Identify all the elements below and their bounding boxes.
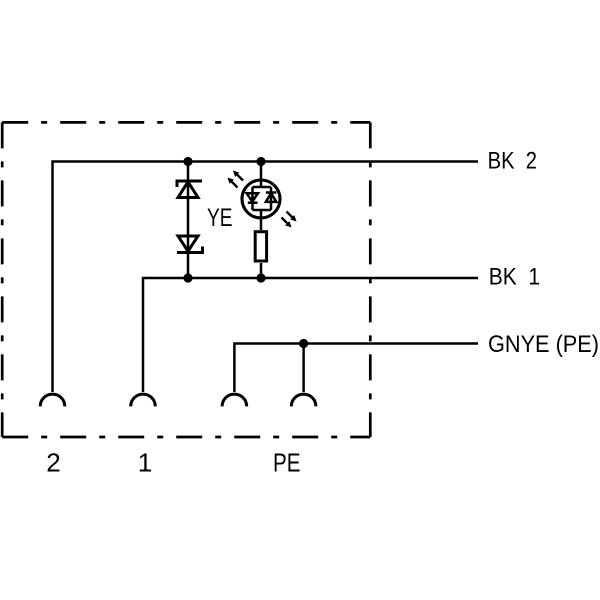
wire LED branch — [260, 162, 263, 279]
junction dot top right (BK2 / LED branch) — [256, 157, 265, 166]
LED light arrow upper-left B — [233, 171, 243, 181]
wire GNYE (PE terminals to GNYE lead) — [234, 344, 478, 393]
suppressor diode Z1 (upper zener, cathode up) — [177, 181, 202, 198]
junction dot bottom right (BK1 / LED branch) — [256, 273, 265, 282]
svg-text:GNYE (PE): GNYE (PE) — [488, 331, 599, 358]
svg-text:1: 1 — [138, 448, 152, 478]
LED light arrow lower-right B — [282, 218, 292, 228]
svg-text:BK 2: BK 2 — [488, 148, 537, 175]
LED inner antiparallel diode pair — [247, 187, 277, 210]
svg-text:YE: YE — [207, 204, 233, 232]
resistor R1 — [255, 232, 266, 261]
terminal contact 2 — [40, 394, 65, 406]
wire BK2 (coil terminal 2 to BK 2 lead) — [53, 162, 479, 393]
wire suppressor-diode branch — [187, 162, 190, 279]
wire BK1 (coil terminal 1 to BK 1 lead) — [143, 278, 478, 392]
junction dot PE line — [299, 339, 308, 348]
enclosure boundary (dash-dot phantom outline) — [2, 122, 370, 437]
wire PE right drop — [302, 344, 305, 393]
junction dot top left (BK2 / diode branch) — [183, 157, 192, 166]
LED indicator circle — [242, 180, 280, 218]
svg-text:PE: PE — [273, 448, 301, 478]
svg-text:BK 1: BK 1 — [489, 264, 540, 291]
svg-text:2: 2 — [46, 448, 60, 478]
LED light arrow upper-left A — [228, 178, 238, 188]
suppressor diode Z2 (lower zener, cathode down) — [177, 236, 203, 253]
terminal contact PE left — [222, 394, 247, 406]
terminal contact 1 — [131, 394, 156, 406]
terminal contact PE right — [291, 394, 316, 406]
LED light arrow lower-right A — [287, 212, 297, 222]
junction dot bottom left (BK1 / diode branch) — [183, 273, 192, 282]
